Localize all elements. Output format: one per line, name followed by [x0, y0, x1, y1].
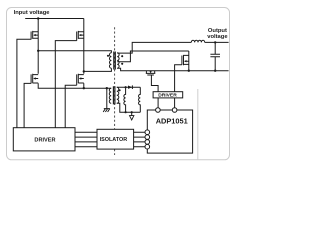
svg-text:DRIVER: DRIVER: [34, 137, 55, 143]
svg-text:ISOLATOR: ISOLATOR: [100, 137, 128, 143]
svg-text:DRIVER: DRIVER: [158, 93, 177, 99]
svg-text:ADP1051: ADP1051: [156, 116, 188, 125]
svg-text:Output: Output: [208, 28, 227, 34]
svg-text:Input voltage: Input voltage: [14, 10, 50, 16]
svg-text:voltage: voltage: [207, 34, 228, 40]
